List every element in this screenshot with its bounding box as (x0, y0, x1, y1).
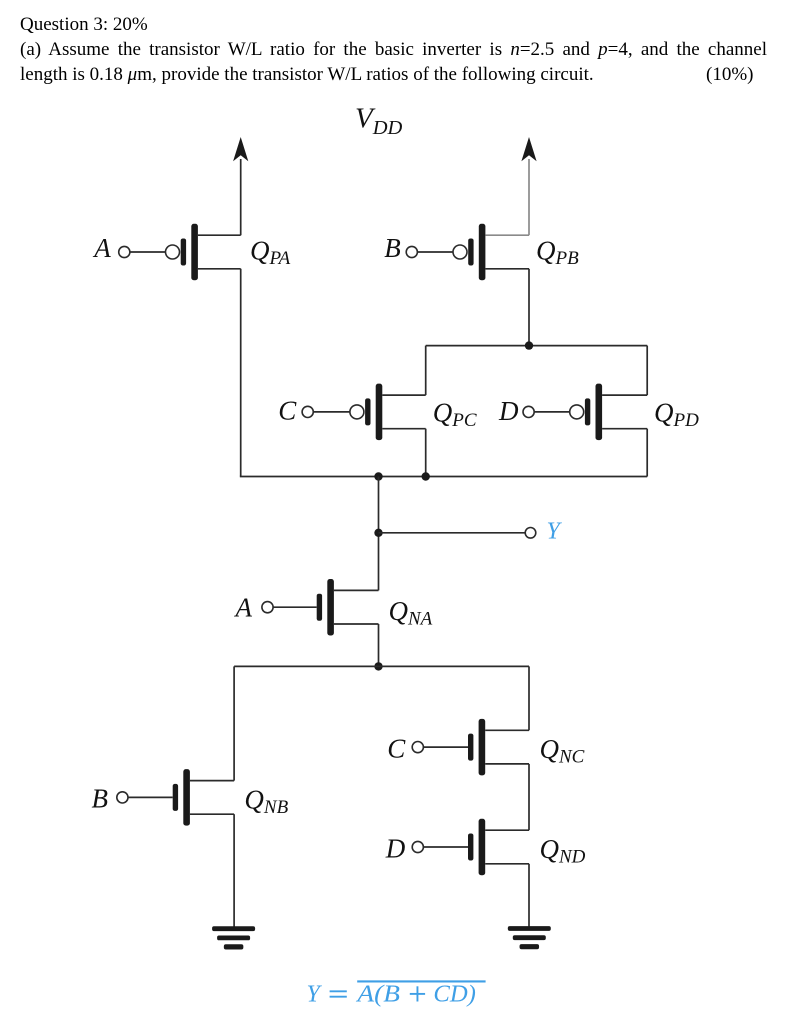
svg-text:QNA: QNA (389, 596, 433, 630)
svg-text:VDD: VDD (355, 103, 403, 140)
svg-text:B: B (92, 784, 109, 814)
svg-text:A: A (92, 233, 111, 263)
svg-text:QPD: QPD (654, 397, 699, 431)
svg-text:Y: Y (547, 518, 563, 544)
svg-text:D: D (385, 833, 406, 863)
svg-text:C: C (278, 396, 297, 426)
svg-text:A(B: A(B (355, 981, 400, 1007)
svg-text:C: C (387, 733, 406, 763)
svg-text:QPB: QPB (536, 236, 579, 270)
svg-text:QNC: QNC (540, 734, 585, 768)
svg-text:QPC: QPC (433, 397, 477, 431)
svg-text:D: D (498, 396, 519, 426)
svg-text:QNB: QNB (244, 785, 288, 819)
svg-text:Y: Y (307, 981, 323, 1007)
svg-text:QPA: QPA (250, 236, 291, 270)
svg-text:A: A (234, 592, 253, 622)
svg-text:QND: QND (540, 834, 586, 868)
svg-text:CD): CD) (433, 981, 476, 1007)
svg-text:B: B (384, 233, 401, 263)
